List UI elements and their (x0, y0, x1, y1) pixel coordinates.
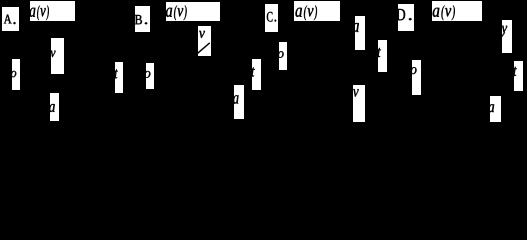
panel A: v axis label box (50, 38, 64, 74)
panel D: option label box D. (396, 4, 414, 31)
panel B: v axis label box (197, 26, 211, 56)
panel B: origin label box o (144, 63, 154, 89)
panel B: t label box (right side) (251, 59, 261, 90)
panel D: t label box (513, 61, 523, 91)
panel A: a axis label box (49, 93, 59, 121)
panel D: v axis label box (502, 20, 513, 53)
panel C: option label box C. (265, 4, 278, 32)
panel C: title box a(v) (294, 1, 340, 21)
panel B: a axis label box (233, 85, 244, 119)
panel D: title box a(v) (432, 1, 482, 21)
panel A: origin label box o (11, 59, 20, 90)
panel D: a axis label box (489, 96, 502, 122)
panel C: t label box (378, 40, 388, 72)
panel C: v axis label box (353, 85, 365, 122)
panel C: a axis label box (353, 16, 366, 50)
panel C: origin label box o (278, 42, 287, 70)
panel D: origin label box o (411, 60, 421, 95)
panel B: option label box B. (135, 6, 150, 32)
panel B: curve segment crossing v box (197, 43, 210, 54)
panel B: title box a(v) (166, 2, 220, 21)
panel A: t label box (right side) (115, 62, 123, 93)
panel D: curve tick in v box (502, 32, 505, 37)
panel A: title box a(v) (30, 1, 76, 21)
panel A: option label box A. (2, 7, 19, 31)
